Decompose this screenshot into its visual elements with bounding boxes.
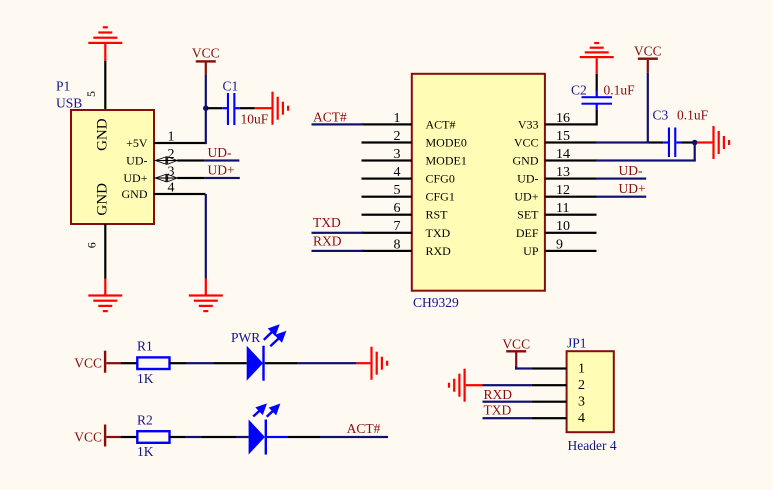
pin 2 (UD-) stub (154, 160, 178, 161)
wire: C2 to ground (596, 58, 598, 74)
svg-text:8: 8 (394, 237, 401, 252)
svg-text:1K: 1K (137, 371, 154, 386)
IC pin 16 stub (V33) (545, 123, 597, 125)
power port VCC (row 2) (74, 425, 120, 447)
IC pin 7 stub (362, 232, 413, 234)
wire: VCC to R2 (121, 436, 138, 438)
pin 3 (UD+) stub (154, 177, 178, 178)
wire: LED D2 to ACT# (267, 436, 288, 438)
capacitor C2 (571, 74, 635, 109)
LED D2 (249, 420, 267, 455)
svg-text:P1: P1 (56, 79, 70, 94)
svg-text:4: 4 (578, 411, 585, 426)
svg-text:ACT#: ACT# (347, 421, 381, 436)
wire: LED D1 to ground (265, 362, 297, 364)
svg-text:10: 10 (556, 219, 570, 234)
svg-text:RXD: RXD (426, 244, 452, 258)
svg-text:10uF: 10uF (241, 112, 269, 127)
svg-text:R1: R1 (137, 339, 153, 354)
ground GND1 (earth, facing up, above USB pin 5) (88, 26, 122, 61)
svg-text:13: 13 (556, 165, 570, 180)
svg-text:VCC: VCC (502, 336, 530, 351)
wire: junction to ground (697, 141, 713, 143)
wire: C1 to ground (255, 107, 272, 109)
svg-text:UD-: UD- (208, 145, 232, 160)
JP1 pin 1 stub (532, 367, 567, 369)
IC pin 6 stub (362, 214, 413, 216)
wire net TXD (IC pin 7) (312, 232, 364, 234)
svg-text:VCC: VCC (634, 44, 662, 59)
svg-text:6: 6 (84, 242, 98, 248)
IC pin 9 stub (UP) (545, 250, 597, 252)
wire: VCC down to pin 15 net (647, 73, 649, 143)
svg-text:C2: C2 (571, 83, 587, 98)
IC pin 5 stub (362, 196, 413, 198)
svg-text:UD-: UD- (126, 154, 147, 168)
svg-text:DEF: DEF (516, 226, 539, 240)
svg-text:15: 15 (556, 129, 570, 144)
wire net UD+ (USB) (205, 177, 240, 179)
ground GND6 (earth, facing right, at C3) (712, 126, 730, 159)
IC pin 1 stub (362, 123, 413, 125)
svg-text:16: 16 (556, 111, 570, 126)
svg-text:12: 12 (556, 183, 570, 198)
svg-text:ACT#: ACT# (426, 117, 456, 131)
svg-text:VCC: VCC (74, 356, 102, 371)
IC pin 13 stub (UD-) (545, 178, 597, 180)
svg-text:4: 4 (168, 180, 175, 195)
IC pin 15 stub (VCC) (545, 141, 597, 143)
wire net RXD (IC pin 8) (312, 250, 364, 252)
svg-text:R2: R2 (137, 413, 153, 428)
wire net UD- (IC) (596, 178, 647, 180)
svg-text:2: 2 (168, 147, 175, 162)
IC pin 14 stub (GND) (545, 159, 597, 161)
connector P1 USB (56, 79, 154, 225)
LED D2 emission arrows (253, 405, 278, 417)
svg-text:5: 5 (394, 183, 401, 198)
svg-text:Header 4: Header 4 (568, 438, 617, 453)
ground GND8 (earth, facing left, at JP1) (448, 369, 466, 402)
junction node (C3 / GND pin) (692, 140, 698, 146)
power port VCC (JP1) (502, 336, 530, 366)
capacitor C1 (207, 79, 269, 127)
wire: gnd to USB pin 5 (104, 61, 106, 111)
svg-text:USB: USB (56, 96, 82, 111)
svg-text:UD-: UD- (517, 172, 538, 186)
svg-text:1: 1 (168, 129, 175, 144)
svg-text:GND: GND (122, 187, 148, 201)
svg-text:MODE0: MODE0 (426, 136, 467, 150)
wire: VCC to JP1 pin 1 (515, 366, 517, 370)
wire: USB pin 4 down to ground (205, 194, 207, 279)
wire: riser to junction (694, 143, 696, 161)
junction node (VCC / C1 / +5V) (203, 105, 209, 111)
svg-text:0.1uF: 0.1uF (604, 83, 636, 98)
IC pin 10 stub (DEF) (545, 232, 597, 234)
svg-text:UD-: UD- (619, 163, 643, 178)
svg-text:JP1: JP1 (567, 335, 587, 350)
wire net TXD (JP1) (483, 417, 532, 419)
svg-text:C3: C3 (653, 108, 669, 123)
svg-text:CFG0: CFG0 (426, 172, 455, 186)
svg-text:1: 1 (394, 111, 401, 126)
svg-text:ACT#: ACT# (313, 110, 347, 125)
svg-text:1: 1 (578, 362, 585, 377)
wire: pin 16 up to C2 (596, 109, 598, 125)
IC pin 2 stub (362, 141, 413, 143)
svg-text:CFG1: CFG1 (426, 190, 455, 204)
IC pin 8 stub (362, 250, 413, 252)
wire: JP1 pin 2 to ground (483, 384, 532, 386)
ground GND5 (earth, facing up, above C2) (580, 42, 614, 58)
resistor R2 (137, 413, 170, 460)
capacitor C3 (649, 108, 709, 158)
svg-text:7: 7 (394, 219, 401, 234)
svg-text:SET: SET (517, 208, 539, 222)
svg-text:3: 3 (168, 164, 175, 179)
svg-text:GND: GND (95, 118, 111, 151)
ground GND7 (earth, facing right, row 1) (370, 347, 388, 380)
JP1 pin 3 stub (532, 401, 567, 403)
svg-text:UD+: UD+ (208, 162, 235, 177)
svg-text:C1: C1 (223, 79, 239, 94)
JP1 pin 4 stub (532, 417, 567, 419)
wire: R2 to LED D2 (170, 436, 186, 438)
svg-text:UD+: UD+ (619, 181, 646, 196)
pin 1 (+5V) stub (154, 142, 206, 144)
IC pin 4 stub (362, 178, 413, 180)
svg-text:1K: 1K (137, 444, 154, 459)
svg-text:11: 11 (556, 201, 569, 216)
svg-text:4: 4 (394, 165, 401, 180)
LED D1 emission arrows (264, 326, 285, 346)
LED D1 PWR (231, 330, 265, 381)
svg-text:VCC: VCC (192, 46, 220, 61)
IC pin 12 stub (UD+) (545, 196, 597, 198)
wire net ACT# (IC pin 1) (312, 123, 364, 125)
svg-text:GND: GND (513, 154, 539, 168)
svg-text:2: 2 (394, 129, 401, 144)
ground GND3 (earth, below USB pin 4 wire) (189, 294, 223, 312)
svg-text:9: 9 (556, 237, 563, 252)
svg-text:6: 6 (394, 201, 401, 216)
ground GND2 (earth, facing right, at C1) (271, 92, 289, 125)
svg-text:TXD: TXD (484, 402, 512, 417)
svg-text:PWR: PWR (231, 330, 260, 345)
IC U1 CH9329 (412, 74, 545, 310)
svg-text:V33: V33 (518, 117, 539, 131)
svg-text:RXD: RXD (484, 387, 513, 402)
svg-text:5: 5 (84, 91, 98, 97)
svg-text:GND: GND (95, 183, 111, 216)
wire: R1 to LED D1 (170, 362, 187, 364)
svg-text:RST: RST (426, 208, 449, 222)
svg-text:UD+: UD+ (514, 190, 538, 204)
wire: pin 14 to riser (596, 159, 696, 161)
power port VCC (right of C2) (634, 44, 662, 73)
IC pin 11 stub (SET) (545, 214, 597, 216)
wire net UD+ (IC) (596, 196, 647, 198)
svg-text:TXD: TXD (313, 215, 341, 230)
header JP1 (567, 335, 617, 453)
pin 3 bidirectional arrow (155, 174, 177, 183)
wire: VCC to R1 (121, 362, 138, 364)
svg-text:MODE1: MODE1 (426, 154, 467, 168)
resistor R1 (137, 339, 170, 387)
svg-text:2: 2 (578, 378, 585, 393)
svg-text:VCC: VCC (74, 430, 102, 445)
IC pin 3 stub (362, 159, 413, 161)
power port VCC (row 1) (74, 351, 120, 373)
svg-text:3: 3 (394, 147, 401, 162)
wire net RXD (JP1) (483, 401, 532, 403)
svg-text:14: 14 (556, 147, 570, 162)
wire net UD- (USB) (205, 159, 240, 161)
svg-text:UP: UP (523, 244, 539, 258)
svg-text:CH9329: CH9329 (413, 295, 459, 310)
wire: VCC down to pin 1 (205, 75, 207, 144)
wire: pin 15 to C3 (596, 141, 649, 143)
svg-text:3: 3 (578, 395, 585, 410)
pin 4 (GND) stub (154, 193, 206, 195)
svg-text:+5V: +5V (126, 136, 148, 150)
ground GND4 (earth, below USB pin 6) (88, 294, 122, 312)
JP1 pin 2 stub (532, 384, 567, 386)
wire: USB pin 6 down to ground (104, 224, 106, 279)
svg-text:TXD: TXD (426, 226, 451, 240)
svg-text:VCC: VCC (514, 136, 539, 150)
svg-text:RXD: RXD (313, 234, 342, 249)
pin 2 bidirectional arrow (155, 156, 177, 165)
svg-text:0.1uF: 0.1uF (677, 108, 709, 123)
power port VCC (top left) (192, 46, 220, 76)
svg-text:UD+: UD+ (123, 171, 147, 185)
